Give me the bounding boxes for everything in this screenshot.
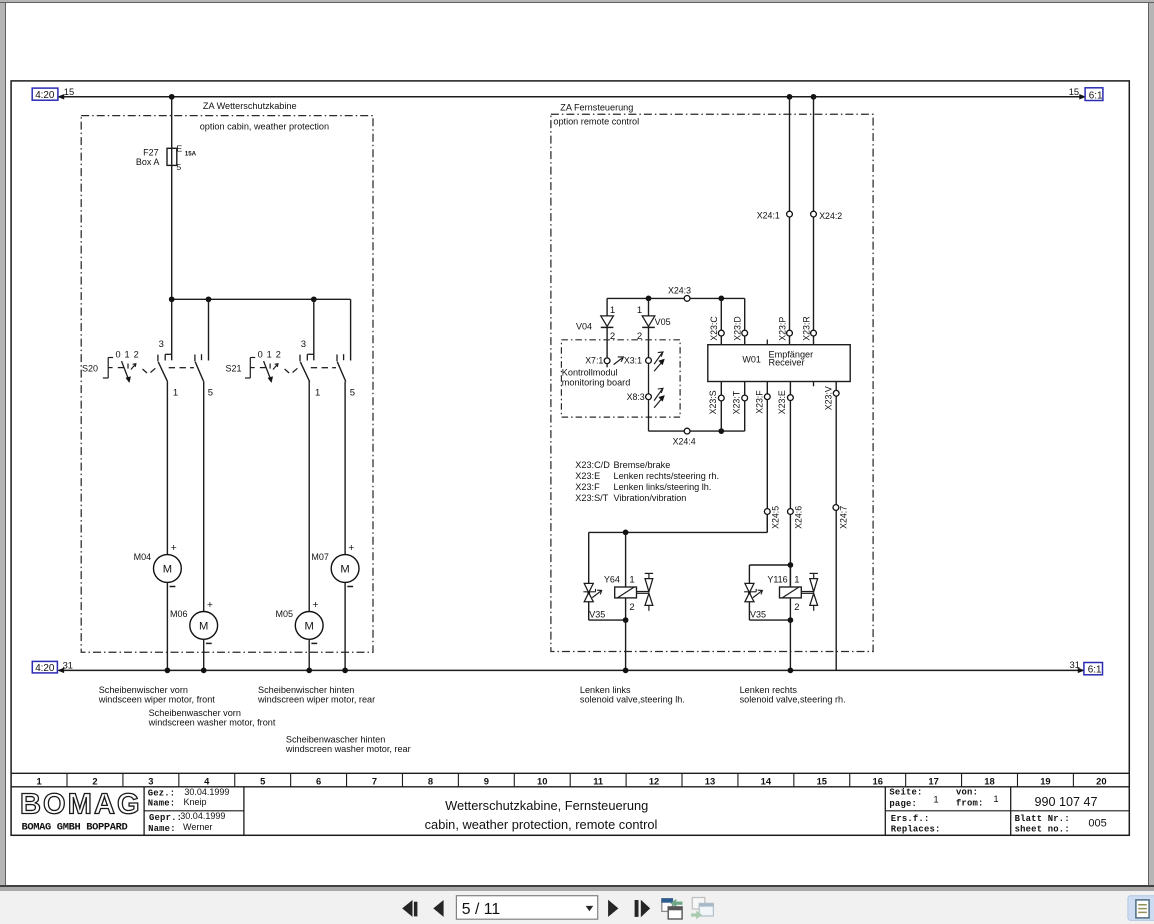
- wire Y64 to bus 31: [625, 620, 627, 670]
- connector X24:3: [684, 296, 690, 302]
- junction M04/bus31: [165, 668, 171, 674]
- svg-text:7: 7: [372, 775, 377, 786]
- svg-text:Wetterschutzkabine, Fernsteuer: Wetterschutzkabine, Fernsteuerung: [445, 798, 648, 813]
- svg-text:1: 1: [993, 794, 998, 805]
- wire Y116 to bus 31: [789, 620, 791, 670]
- svg-text:M: M: [340, 564, 349, 576]
- svg-text:Werner: Werner: [183, 822, 212, 832]
- junction feed/Y64 coil: [623, 530, 629, 536]
- motor M05: [295, 612, 323, 640]
- junction M07/bus31: [342, 668, 348, 674]
- pin stub top X23 (unused): [766, 340, 768, 345]
- svg-text:BOMAG: BOMAG: [20, 789, 142, 821]
- junction Y116 pin2/pilot return: [788, 617, 794, 623]
- wire feed Y116: [749, 564, 790, 566]
- svg-text:Vibration/vibration: Vibration/vibration: [614, 493, 687, 503]
- M07 polarity -: [347, 586, 353, 588]
- svg-text:Replaces:: Replaces:: [891, 825, 941, 835]
- S21 contact blade 1: [299, 355, 301, 362]
- svg-text:2: 2: [794, 602, 799, 613]
- wire motor M07 to bus 31: [344, 582, 346, 670]
- toolbar next button: [608, 900, 618, 917]
- option frame ZA Fernsteuerung: [551, 114, 873, 651]
- svg-text:3: 3: [301, 339, 306, 350]
- M04 polarity -: [170, 586, 176, 588]
- monitoring board Kontrollmodul frame: [561, 340, 680, 417]
- svg-text:X23:C: X23:C: [709, 316, 719, 341]
- svg-text:X24:6: X24:6: [793, 506, 803, 529]
- svg-text:X23:R: X23:R: [802, 316, 812, 340]
- svg-text:5 / 11: 5 / 11: [462, 901, 501, 918]
- svg-text:6: 6: [316, 775, 321, 786]
- svg-text:Name:: Name:: [148, 824, 176, 834]
- svg-text:X23:F: X23:F: [754, 390, 764, 414]
- wire motor M04 to bus 31: [166, 582, 168, 670]
- svg-text:from:: from:: [956, 798, 984, 808]
- arrowhead into 4:20 reference bottom: [58, 668, 64, 673]
- svg-text:M06: M06: [170, 609, 188, 619]
- switch S20 manual actuator: [107, 358, 109, 379]
- svg-text:X23:E: X23:E: [575, 471, 600, 481]
- svg-text:X23:D: X23:D: [733, 316, 743, 340]
- indicator arrows at X3:1: [654, 352, 662, 364]
- wire switch to motor M05: [308, 381, 310, 612]
- junction X24:4/X23:S: [718, 428, 724, 434]
- svg-text:Name:: Name:: [148, 799, 176, 809]
- fuse F27 15A: [167, 148, 177, 165]
- svg-text:Blatt Nr.:: Blatt Nr.:: [1015, 814, 1070, 824]
- svg-text:X23:F: X23:F: [575, 482, 600, 492]
- svg-text:+: +: [348, 542, 354, 554]
- svg-text:M: M: [199, 621, 208, 633]
- connector X24:6: [788, 509, 794, 515]
- svg-text:990 107 47: 990 107 47: [1034, 795, 1097, 809]
- svg-text:X23:T: X23:T: [732, 390, 742, 414]
- svg-text:5: 5: [350, 388, 355, 399]
- S21 contact terminal 5 (upper): [350, 299, 352, 360]
- svg-text:X24:7: X24:7: [838, 506, 848, 529]
- S20 actuator arrow: [122, 361, 129, 379]
- option frame ZA Wetterschutzkabine: [81, 116, 373, 653]
- svg-text:5: 5: [208, 388, 213, 399]
- svg-text:V35: V35: [750, 610, 766, 620]
- solenoid valve group Y64: [766, 514, 768, 532]
- svg-text:5: 5: [260, 775, 265, 786]
- svg-text:Lenken links/steering lh.: Lenken links/steering lh.: [614, 482, 712, 492]
- wire switch to motor M07: [344, 382, 346, 555]
- connector X24:4: [684, 428, 690, 434]
- wire switch to motor M06: [203, 382, 205, 612]
- svg-text:0 1 2: 0 1 2: [258, 349, 282, 359]
- svg-text:1: 1: [610, 305, 615, 316]
- svg-text:6:1: 6:1: [1089, 90, 1103, 101]
- junction M06/bus31: [201, 668, 207, 674]
- svg-text:1: 1: [36, 775, 41, 786]
- svg-text:0 1 2: 0 1 2: [116, 349, 140, 359]
- toolbar first/previous page button: [402, 900, 412, 917]
- svg-text:31: 31: [63, 660, 73, 671]
- svg-text:monitoring board: monitoring board: [562, 378, 630, 388]
- svg-text:Gez.:: Gez.:: [148, 789, 176, 799]
- svg-text:8: 8: [428, 775, 433, 786]
- svg-text:M: M: [305, 621, 314, 633]
- cross reference 6:1 top right: [1085, 88, 1103, 101]
- svg-text:V04: V04: [576, 322, 592, 332]
- S21 mechanical link dashes: [285, 369, 290, 373]
- pin X23:T: [744, 382, 746, 432]
- net 15 top bus wire: [59, 96, 1086, 98]
- svg-text:4: 4: [204, 775, 210, 786]
- svg-text:windscreen washer motor, rear: windscreen washer motor, rear: [285, 744, 411, 754]
- pin X23:D: [744, 298, 746, 344]
- junction feed/Y116 coil: [788, 562, 794, 568]
- receiver W01: [708, 345, 850, 382]
- svg-text:20: 20: [1096, 775, 1106, 786]
- toolbar detach window button: [662, 899, 673, 912]
- valve symbol of Y116: [801, 591, 813, 593]
- svg-text:Y116: Y116: [767, 574, 787, 584]
- connector X24:1: [787, 211, 793, 217]
- svg-text:2: 2: [92, 775, 97, 786]
- toolbar next/last page button: [635, 900, 639, 917]
- svg-text:cabin, weather protection, re: cabin, weather protection, remote contro…: [425, 817, 658, 832]
- svg-text:6:1: 6:1: [1088, 665, 1102, 676]
- junction Y64/bus31: [623, 668, 629, 674]
- svg-text:solenoid valve,steering rh.: solenoid valve,steering rh.: [740, 695, 846, 705]
- svg-text:option cabin, weather protecti: option cabin, weather protection: [200, 122, 329, 132]
- svg-text:15: 15: [1069, 86, 1079, 97]
- svg-text:X24:5: X24:5: [770, 506, 780, 529]
- svg-text:M07: M07: [311, 552, 329, 562]
- wire X3:1 to X8:3: [648, 363, 650, 394]
- svg-text:X24:4: X24:4: [673, 437, 696, 447]
- svg-text:17: 17: [928, 775, 938, 786]
- svg-text:W01: W01: [742, 354, 761, 364]
- svg-text:15: 15: [64, 86, 74, 97]
- pin X23:C: [720, 298, 722, 344]
- svg-text:2: 2: [610, 331, 615, 342]
- cross reference 4:20 bottom left: [32, 661, 57, 673]
- pilot valve V35 of Y116: [748, 565, 750, 583]
- connector X24:5: [764, 509, 770, 515]
- wire pilot to junction below Y116: [748, 602, 750, 620]
- svg-text:15: 15: [817, 775, 827, 786]
- arrowhead into 6:1 reference: [1080, 94, 1086, 99]
- S20 contact blade 2: [195, 362, 204, 382]
- svg-text:V05: V05: [655, 317, 671, 327]
- junction X24:3/V05: [646, 296, 652, 302]
- svg-text:page:: page:: [889, 799, 917, 809]
- svg-text:3: 3: [148, 775, 153, 786]
- svg-text:V35: V35: [589, 610, 605, 620]
- junction rail/S20 contact2: [206, 296, 212, 302]
- wire pilot to junction below Y64: [588, 602, 590, 620]
- svg-text:S21: S21: [226, 363, 242, 373]
- wire X8:3 to X24:4 link: [648, 400, 650, 431]
- toolbar return window button (disabled): [692, 898, 705, 910]
- board pin X8:3: [646, 394, 652, 400]
- svg-text:X7:1: X7:1: [585, 356, 603, 366]
- wire bus15 to X24:1 to X23:P: [789, 97, 791, 345]
- svg-text:X8:3: X8:3: [627, 392, 645, 402]
- svg-text:3: 3: [159, 339, 164, 350]
- svg-text:2: 2: [629, 602, 634, 613]
- cross reference 6:1 bottom right: [1084, 663, 1103, 675]
- switch S21 manual actuator: [249, 358, 251, 379]
- svg-text:sheet no.:: sheet no.:: [1015, 825, 1070, 835]
- svg-text:Bremse/brake: Bremse/brake: [614, 460, 671, 470]
- svg-text:18: 18: [984, 775, 994, 786]
- S21 contact terminal 3 (upper): [313, 299, 315, 360]
- diode V04: [606, 298, 608, 316]
- S20 coupling dashes: [169, 367, 175, 369]
- svg-text:windscreen washer motor, front: windscreen washer motor, front: [148, 718, 276, 728]
- svg-text:X23:S: X23:S: [708, 390, 718, 414]
- svg-text:Ers.f.:: Ers.f.:: [891, 814, 930, 824]
- svg-text:1: 1: [315, 387, 320, 398]
- S21 contact blade 2: [337, 362, 346, 382]
- arrowhead into 6:1 reference bottom: [1078, 668, 1084, 673]
- connector X24:7: [833, 505, 839, 511]
- valve symbol of Y64: [637, 591, 649, 593]
- S21 coupling dashes: [311, 367, 317, 369]
- junction rail/F27: [169, 296, 175, 302]
- wire switch to motor M04: [166, 382, 168, 555]
- wire motor M05 to bus 31: [308, 639, 310, 670]
- solenoid coil Y64: [615, 587, 637, 598]
- motor M07: [331, 555, 359, 583]
- svg-text:windscreen wiper motor, rear: windscreen wiper motor, rear: [257, 695, 375, 705]
- S20 mechanical link dashes: [143, 369, 148, 373]
- solenoid coil Y116: [780, 587, 802, 598]
- sidebar toggle button (pressed): [1128, 896, 1154, 921]
- svg-text:005: 005: [1088, 817, 1106, 829]
- svg-text:Lenken rechts/steering rh.: Lenken rechts/steering rh.: [614, 471, 720, 481]
- junction M05/bus31: [306, 668, 312, 674]
- svg-text:Box A: Box A: [136, 157, 160, 167]
- svg-text:30.04.1999: 30.04.1999: [184, 787, 229, 797]
- connector X24:2: [811, 211, 817, 217]
- svg-text:9: 9: [484, 775, 489, 786]
- svg-text:F27: F27: [143, 148, 159, 158]
- svg-text:option remote control: option remote control: [553, 117, 639, 127]
- pin X23:S: [720, 382, 722, 432]
- junction bus15/F27 feed: [169, 94, 175, 100]
- svg-text:solenoid valve,steering lh.: solenoid valve,steering lh.: [580, 695, 685, 705]
- svg-text:S20: S20: [82, 363, 98, 373]
- M05 polarity -: [311, 642, 317, 644]
- junction X24:3/X23:C: [718, 296, 724, 302]
- svg-text:11: 11: [593, 775, 603, 786]
- S20 contact blade 1: [157, 355, 159, 362]
- diode V05: [648, 298, 650, 316]
- motor M06: [190, 612, 218, 640]
- svg-text:12: 12: [649, 775, 659, 786]
- svg-text:Seite:: Seite:: [889, 787, 922, 797]
- wire bus15 to X24:2 to X23:R: [813, 97, 815, 345]
- svg-text:X23:E: X23:E: [777, 390, 787, 414]
- pilot arrow of Y64: [592, 591, 601, 598]
- S20 contact 2 fixed prongs: [194, 355, 196, 362]
- junction bus15/X24:1 drop: [787, 94, 793, 100]
- junction bus15/X24:2 drop: [811, 94, 817, 100]
- svg-text:5: 5: [176, 162, 181, 172]
- svg-text:Y64: Y64: [604, 574, 620, 584]
- svg-text:Kneip: Kneip: [184, 797, 207, 807]
- svg-text:X23:V: X23:V: [824, 386, 834, 410]
- board pin X7:1: [604, 358, 610, 364]
- svg-text:19: 19: [1040, 775, 1050, 786]
- junction Y116/bus31: [788, 668, 794, 674]
- svg-text:1: 1: [637, 305, 642, 316]
- svg-text:+: +: [207, 599, 213, 611]
- svg-text:X24:3: X24:3: [668, 286, 691, 296]
- svg-text:1: 1: [629, 574, 634, 585]
- wire bus15 to fuse F27 and down to rail: [171, 97, 173, 299]
- svg-text:30.04.1999: 30.04.1999: [180, 811, 225, 821]
- svg-text:14: 14: [761, 775, 772, 786]
- svg-text:1: 1: [933, 795, 938, 806]
- svg-text:15A: 15A: [185, 151, 197, 158]
- S20 contact terminal 3 (upper): [171, 299, 173, 360]
- svg-text:4:20: 4:20: [35, 90, 55, 101]
- wire motor M06 to bus 31: [203, 639, 205, 670]
- svg-text:E: E: [176, 143, 182, 153]
- svg-text:ZA Fernsteuerung: ZA Fernsteuerung: [560, 102, 633, 112]
- svg-text:+: +: [312, 599, 318, 611]
- motor M04: [154, 555, 182, 583]
- svg-text:+: +: [171, 542, 177, 554]
- pilot arrow of Y116: [753, 591, 762, 598]
- pin X23:E wire to X24:6: [789, 382, 791, 587]
- svg-text:10: 10: [537, 775, 547, 786]
- svg-text:Gepr.:: Gepr.:: [149, 813, 182, 823]
- svg-text:BOMAG GMBH BOPPARD: BOMAG GMBH BOPPARD: [22, 822, 128, 834]
- S21 contact 2 fixed prongs: [336, 355, 338, 362]
- arrowhead into 4:20 reference: [58, 94, 64, 99]
- svg-text:4:20: 4:20: [35, 663, 55, 674]
- indicator arrows at X8:3: [654, 389, 662, 401]
- pin stub bottom (unused): [813, 382, 815, 387]
- S20 contact terminal 5 (upper): [208, 299, 210, 360]
- svg-text:13: 13: [705, 775, 715, 786]
- M06 polarity -: [206, 642, 212, 644]
- svg-text:windsceen wiper motor, front: windsceen wiper motor, front: [98, 695, 216, 705]
- svg-text:1: 1: [794, 574, 799, 585]
- svg-text:X24:2: X24:2: [819, 211, 842, 221]
- net 31 bottom bus wire: [59, 669, 1084, 671]
- svg-text:X3:1: X3:1: [624, 356, 642, 366]
- svg-text:M05: M05: [275, 609, 293, 619]
- pin X23:P: [787, 330, 793, 336]
- svg-text:31: 31: [1070, 659, 1080, 670]
- junction Y64 pin2/pilot return: [623, 617, 629, 623]
- S21 actuator arrow: [264, 361, 271, 379]
- svg-text:Kontrollmodul: Kontrollmodul: [562, 367, 618, 377]
- svg-text:Receiver: Receiver: [769, 358, 805, 368]
- svg-text:von:: von:: [956, 787, 978, 797]
- toolbar previous button: [433, 900, 443, 917]
- pin X23:F wire to X24:5: [766, 382, 768, 533]
- pin X23:V wire to X24:7: [835, 382, 837, 671]
- svg-text:M04: M04: [134, 552, 152, 562]
- wiper supply rail: [172, 298, 351, 300]
- wire X24:3 link: [607, 297, 745, 299]
- svg-text:X23:C/D: X23:C/D: [575, 460, 610, 470]
- svg-text:X24:1: X24:1: [757, 211, 780, 221]
- svg-text:1: 1: [173, 387, 178, 398]
- toolbar page select box 5 / 11: [456, 896, 597, 920]
- indicator arrow at X7:1: [614, 358, 623, 365]
- wire feed Y64: [589, 531, 768, 533]
- svg-text:M: M: [163, 564, 172, 576]
- svg-text:X23:P: X23:P: [778, 317, 788, 341]
- svg-text:X23:S/T: X23:S/T: [575, 493, 608, 503]
- svg-text:16: 16: [872, 775, 882, 786]
- pilot valve V35 of Y64: [588, 532, 590, 583]
- junction rail/S21 contact1: [311, 296, 317, 302]
- cross reference 4:20 top left: [32, 88, 58, 100]
- svg-text:ZA Wetterschutzkabine: ZA Wetterschutzkabine: [203, 101, 297, 111]
- pin X23:R: [811, 330, 817, 336]
